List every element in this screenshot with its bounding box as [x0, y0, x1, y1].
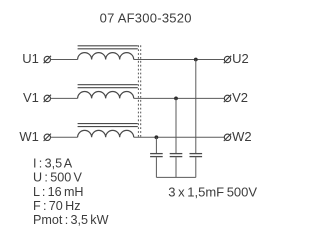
wire L1 to U2 — [134, 59, 225, 61]
node W junction — [155, 135, 159, 139]
svg-text:3 x 1,5mF 500V: 3 x 1,5mF 500V — [168, 184, 257, 199]
wire node V to C2 — [175, 98, 177, 153]
svg-text:W2: W2 — [232, 129, 252, 144]
wire L3 to W2 — [134, 136, 225, 138]
terminal W2 — [224, 134, 231, 141]
node U junction — [194, 58, 198, 62]
capacitor C2 lower lead — [175, 157, 177, 177]
svg-text:V2: V2 — [232, 90, 248, 105]
wire capacitor common bus — [156, 176, 195, 178]
inductor L3 core lines — [78, 124, 138, 127]
svg-text:L : 16 mH: L : 16 mH — [33, 185, 84, 199]
terminal U2 — [224, 56, 231, 63]
svg-text:07 AF300-3520: 07 AF300-3520 — [100, 11, 192, 26]
capacitor C3 lower lead — [195, 157, 197, 177]
inductor L2 core lines — [78, 85, 138, 88]
svg-text:U1: U1 — [22, 51, 39, 66]
svg-text:U : 500 V: U : 500 V — [33, 171, 83, 185]
capacitor C3 — [190, 154, 203, 157]
terminal U1 — [44, 56, 51, 63]
capacitor C2 — [170, 154, 183, 157]
inductor L3 winding — [78, 130, 134, 137]
terminal V2 — [224, 95, 231, 102]
capacitor C1 — [150, 154, 163, 157]
inductor L2 winding — [78, 91, 134, 98]
wire W1 to L3 — [51, 136, 78, 138]
capacitor C1 lower lead — [155, 157, 157, 177]
common core coupling dashed lines — [138, 45, 140, 138]
svg-text:W1: W1 — [19, 129, 39, 144]
inductor L1 winding — [78, 53, 134, 60]
terminal V1 — [44, 95, 51, 102]
svg-text:F : 70 Hz: F : 70 Hz — [33, 199, 81, 213]
svg-text:V1: V1 — [23, 90, 39, 105]
node V junction — [174, 97, 178, 101]
inductor L1 core lines — [78, 46, 138, 49]
svg-text:I : 3,5 A: I : 3,5 A — [33, 156, 73, 170]
wire V1 to L2 — [51, 97, 78, 99]
svg-text:Pmot : 3,5 kW: Pmot : 3,5 kW — [33, 213, 109, 227]
svg-text:U2: U2 — [232, 51, 249, 66]
wire node U to C3 — [195, 60, 197, 154]
wire L2 to V2 — [134, 97, 225, 99]
terminal W1 — [44, 134, 51, 141]
wire node W to C1 — [155, 137, 157, 153]
wire U1 to L1 — [51, 59, 78, 61]
